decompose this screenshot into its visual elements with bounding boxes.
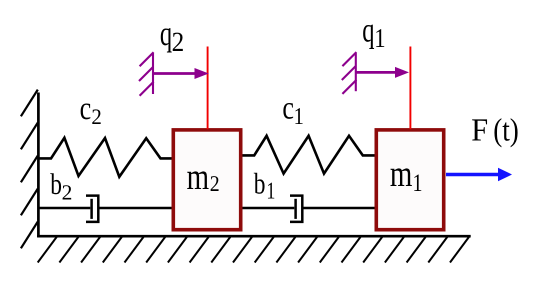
- label F(t): [471, 112, 488, 148]
- svg-text:2: 2: [62, 180, 73, 204]
- red guide line above m1: [409, 47, 411, 130]
- label b2: [50, 168, 62, 201]
- svg-text:1: 1: [374, 23, 385, 53]
- wall: [37, 93, 40, 238]
- red guide line above m2: [207, 47, 209, 130]
- mass m2: [173, 130, 240, 230]
- svg-text:c: c: [80, 91, 92, 127]
- svg-text:1: 1: [294, 104, 304, 130]
- q2 reference mark: [139, 52, 154, 95]
- svg-text:2: 2: [210, 171, 220, 196]
- wall hatching: [21, 90, 38, 249]
- label c1: [282, 91, 294, 127]
- ground hatching: [38, 237, 470, 263]
- label q2: [160, 14, 172, 53]
- spring c1: [243, 136, 375, 174]
- damper b2: [38, 196, 172, 222]
- force arrow F(t): [446, 173, 500, 177]
- svg-text:1: 1: [266, 178, 275, 204]
- label b1: [254, 168, 266, 201]
- ground: [37, 235, 471, 238]
- q1 arrow: [356, 71, 397, 74]
- mass m1: [376, 130, 443, 230]
- svg-text:q: q: [160, 14, 172, 53]
- label c2: [80, 91, 92, 127]
- spring c2: [38, 138, 172, 177]
- svg-text:F: F: [471, 112, 488, 148]
- q2 arrow: [153, 72, 196, 75]
- svg-text:m: m: [187, 157, 209, 198]
- label m1: [390, 154, 412, 195]
- label m2: [187, 157, 209, 198]
- svg-text:1: 1: [413, 170, 423, 197]
- svg-text:2: 2: [172, 26, 185, 57]
- q1 reference mark: [342, 52, 357, 94]
- svg-text:2: 2: [91, 104, 101, 129]
- svg-text:b: b: [254, 168, 266, 201]
- svg-text:(t): (t): [493, 112, 519, 148]
- damper b1: [243, 196, 375, 222]
- svg-text:b: b: [50, 168, 62, 201]
- svg-text:m: m: [390, 154, 412, 195]
- label q1: [362, 11, 374, 50]
- svg-text:c: c: [282, 91, 294, 127]
- svg-text:q: q: [362, 11, 374, 50]
